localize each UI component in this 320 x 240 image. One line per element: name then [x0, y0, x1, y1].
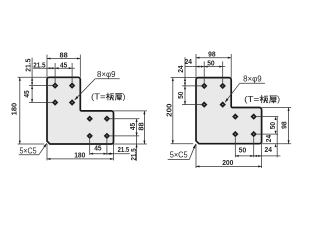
svg-text:24: 24	[178, 65, 185, 72]
svg-text:180: 180	[74, 152, 85, 159]
svg-text:50: 50	[207, 61, 214, 68]
svg-text:24: 24	[185, 59, 192, 66]
svg-text:): )	[123, 93, 126, 102]
svg-text:98: 98	[281, 121, 288, 129]
svg-text:200: 200	[222, 160, 233, 167]
svg-text:(T=: (T=	[244, 95, 259, 104]
svg-text:21.5: 21.5	[33, 62, 45, 69]
svg-text:50: 50	[270, 122, 277, 129]
svg-text:180: 180	[12, 103, 19, 116]
svg-text:88: 88	[138, 122, 145, 130]
svg-text:45: 45	[130, 123, 137, 130]
svg-text:50: 50	[239, 148, 246, 155]
svg-text:24: 24	[265, 147, 272, 154]
svg-text:(T=: (T=	[91, 93, 106, 102]
svg-text:45: 45	[60, 62, 67, 69]
svg-text:50: 50	[178, 91, 185, 98]
svg-text:98: 98	[208, 52, 216, 59]
svg-text:): )	[277, 95, 280, 104]
svg-text:200: 200	[167, 103, 174, 117]
svg-text:45: 45	[24, 90, 31, 97]
svg-text:21.5: 21.5	[131, 148, 138, 160]
svg-text:45: 45	[94, 146, 101, 153]
svg-text:8×φ9: 8×φ9	[97, 70, 116, 79]
svg-text:5×C5: 5×C5	[170, 151, 188, 160]
svg-text:21.5: 21.5	[25, 58, 32, 71]
svg-text:8×φ9: 8×φ9	[243, 74, 262, 83]
svg-text:88: 88	[60, 52, 68, 59]
svg-text:5×C5: 5×C5	[20, 146, 37, 155]
svg-text:24: 24	[266, 135, 273, 142]
svg-text:21.5: 21.5	[118, 147, 130, 154]
